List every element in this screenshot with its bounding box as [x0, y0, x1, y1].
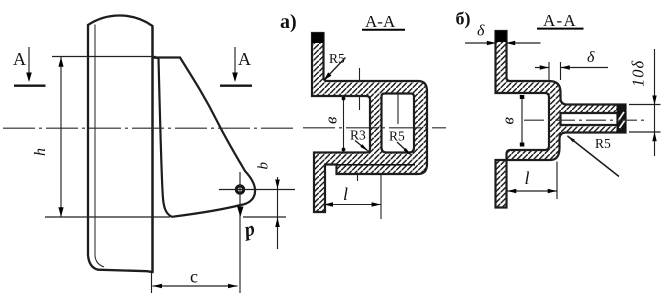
svg-text:l: l	[525, 168, 530, 188]
svg-text:A: A	[13, 49, 26, 69]
svg-text:A-A: A-A	[543, 11, 577, 30]
svg-text:а): а)	[280, 11, 297, 33]
svg-text:h: h	[32, 148, 49, 156]
svg-text:A-A: A-A	[365, 12, 396, 31]
svg-text:R5: R5	[595, 136, 611, 151]
svg-text:b: b	[256, 162, 272, 170]
svg-text:l: l	[343, 184, 348, 204]
svg-text:R5: R5	[329, 51, 345, 66]
svg-text:R3: R3	[350, 128, 366, 143]
svg-text:δ: δ	[477, 23, 485, 40]
svg-text:R5: R5	[389, 129, 405, 144]
svg-text:p: p	[241, 218, 257, 242]
svg-text:б): б)	[456, 9, 471, 30]
svg-text:c: c	[190, 267, 198, 287]
svg-text:A: A	[238, 49, 251, 69]
svg-text:10δ: 10δ	[629, 60, 648, 87]
svg-text:δ: δ	[587, 49, 595, 66]
svg-text:в: в	[322, 116, 341, 124]
svg-text:в: в	[499, 117, 518, 125]
